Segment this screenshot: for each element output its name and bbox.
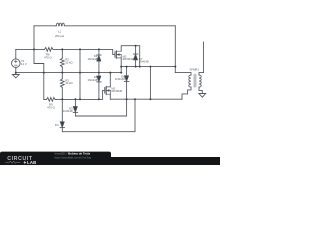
resistor R5 bbox=[46, 98, 56, 102]
node lowrail-D6col bbox=[126, 98, 128, 100]
wire top rail left segment bbox=[34, 25, 56, 27]
diode D3 bbox=[73, 99, 77, 112]
node V1 minus bbox=[15, 72, 17, 74]
transformer XFMR1 secondary winding bbox=[199, 73, 204, 94]
svg-text:12 V: 12 V bbox=[21, 62, 27, 66]
CircuitLab logo bbox=[6, 156, 37, 165]
svg-text:L1: L1 bbox=[58, 29, 62, 33]
wire D1 bottom lead bbox=[98, 82, 100, 99]
resistor R3 bbox=[60, 78, 64, 87]
wire V1 plus rail y=49.4 bbox=[16, 48, 44, 50]
diode D6 bbox=[75, 67, 128, 116]
node toprail-xfmr bbox=[174, 66, 176, 68]
svg-text:1N4148: 1N4148 bbox=[87, 57, 97, 61]
node midrail-M1drain bbox=[109, 72, 111, 74]
node midrail-R2R3 bbox=[61, 72, 63, 74]
wire source rail y=66.6 bbox=[121, 66, 175, 68]
wire D2-D1 link bbox=[98, 61, 100, 76]
svg-text:200 µH: 200 µH bbox=[55, 34, 64, 38]
node midrail-D1 bbox=[98, 72, 100, 74]
svg-text:1N4148: 1N4148 bbox=[87, 78, 97, 82]
wire R3 bottom lead bbox=[61, 88, 63, 99]
svg-text:1N4148: 1N4148 bbox=[63, 109, 73, 113]
svg-text:IRF9630: IRF9630 bbox=[112, 89, 123, 93]
wire lower rail to M1 gate bbox=[56, 90, 105, 99]
svg-text:D4: D4 bbox=[55, 123, 59, 127]
node rail49-R2 bbox=[61, 48, 63, 50]
node lowrail-crossriser bbox=[149, 98, 151, 100]
svg-text:1N4148: 1N4148 bbox=[115, 77, 125, 81]
labels bbox=[21, 29, 199, 127]
wire R3 top lead bbox=[61, 73, 63, 79]
node srcrail-D6 bbox=[126, 66, 128, 68]
transformer XFMR1 primary winding bbox=[175, 73, 191, 100]
node midrail-col80 bbox=[79, 72, 81, 74]
voltage source V1 bbox=[12, 59, 21, 68]
node srcrail-M2src bbox=[120, 66, 122, 68]
junction dots bbox=[15, 45, 177, 100]
diode D1 bbox=[97, 76, 101, 82]
wire gate rail to M2 bbox=[54, 49, 115, 54]
wire bias column x=80 bbox=[79, 49, 81, 99]
wire R2 top lead bbox=[61, 49, 63, 57]
ground GND1 bbox=[12, 73, 19, 78]
wire secondary top open terminal bbox=[203, 42, 205, 73]
wire bottom rail bbox=[62, 99, 135, 132]
node midrail-leftcol bbox=[43, 72, 45, 74]
wire right lower rail y=99.2 bbox=[110, 98, 182, 100]
node midrail-M2source bbox=[120, 72, 122, 74]
node rail49-D2 bbox=[98, 48, 100, 50]
node srcrail-crossriser bbox=[149, 66, 151, 68]
ground GND2 bbox=[199, 94, 206, 98]
diode D2 bbox=[97, 55, 101, 61]
svg-text:470 Ω: 470 Ω bbox=[44, 55, 52, 59]
svg-text:10 kΩ: 10 kΩ bbox=[65, 60, 72, 64]
node rail49-leftcol bbox=[33, 48, 35, 50]
mosfet M2 bbox=[115, 51, 121, 58]
wire top rail right segment bbox=[66, 25, 175, 27]
wire D4 top lead bbox=[61, 99, 63, 121]
wire D2 top lead bbox=[98, 49, 100, 55]
svg-text:IRF9630: IRF9630 bbox=[123, 57, 134, 61]
wire V1 top lead bbox=[15, 49, 17, 59]
wire M1 source drop bbox=[109, 94, 111, 99]
node lowrail-col80 bbox=[79, 98, 81, 100]
resistor R2 bbox=[60, 58, 64, 67]
diode D7 bbox=[133, 46, 137, 67]
svg-text:10 kΩ: 10 kΩ bbox=[65, 81, 72, 85]
wire left column from top rail bbox=[34, 26, 44, 100]
transformer core bbox=[194, 74, 196, 87]
svg-text:LAB: LAB bbox=[27, 160, 37, 165]
wire right riser from top rail to transformer primary bbox=[174, 26, 176, 73]
node drainwire-D7 bbox=[135, 45, 137, 47]
node lowrail-D3 bbox=[74, 98, 76, 100]
node lowrail-D4 bbox=[61, 98, 63, 100]
diode D4 bbox=[60, 122, 64, 128]
wire M2 drain riser bbox=[121, 46, 140, 67]
bottom attribution bar bbox=[0, 151, 220, 165]
wire M1 drain riser bbox=[109, 73, 111, 87]
wire cross link riser x=150.4 bbox=[149, 67, 151, 100]
inductor L1 bbox=[56, 23, 66, 26]
svg-text:XFMR1: XFMR1 bbox=[190, 67, 200, 71]
mosfet M1 bbox=[105, 86, 111, 94]
node srcrail-D7 bbox=[135, 66, 137, 68]
node rail49-col80 bbox=[79, 48, 81, 50]
wire V1 bottom lead bbox=[15, 68, 17, 73]
node lowrail-D1col bbox=[98, 98, 100, 100]
wire mid rail y=72.6 bbox=[16, 72, 121, 74]
svg-text:1N4148: 1N4148 bbox=[139, 60, 149, 64]
wire R2 bottom lead bbox=[61, 67, 63, 72]
wire lower rail left y=99.4 bbox=[44, 98, 46, 100]
svg-text:http://circuitlab.com/c7vx3ua: http://circuitlab.com/c7vx3ua bbox=[55, 155, 92, 159]
resistor R6 bbox=[44, 48, 54, 52]
wire M2 source drop bbox=[120, 58, 122, 73]
svg-text:470 Ω: 470 Ω bbox=[47, 105, 55, 109]
node srcrail-drainriser bbox=[139, 66, 141, 68]
node lowrail-bottomriser bbox=[134, 98, 136, 100]
